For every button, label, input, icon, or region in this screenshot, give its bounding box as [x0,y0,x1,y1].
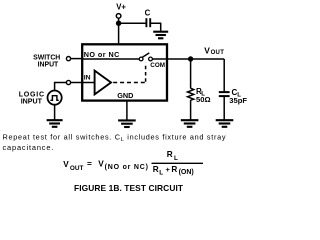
wire capacitor C to ground [150,23,161,31]
wire RL to ground [190,100,192,120]
terminal V+ [116,14,121,19]
svg-text:L: L [159,170,163,177]
svg-text:35pF: 35pF [229,96,247,105]
svg-text:50Ω: 50Ω [196,95,211,104]
svg-text:FIGURE 1B. TEST CIRCUIT: FIGURE 1B. TEST CIRCUIT [74,183,184,193]
wire junction to capacitor C [119,22,147,24]
wire NO/NC to switch [83,58,139,60]
terminal SWITCH INPUT [66,57,70,61]
wire V+ down to box top [118,18,120,45]
svg-text:COM: COM [150,62,165,69]
svg-text:(ON): (ON) [179,169,194,176]
capacitor C plates [146,18,150,27]
svg-text:L: L [174,155,178,162]
switch S1 [139,53,152,61]
resistor RL [188,88,194,100]
ground (decoupling cap C) [153,32,168,39]
wire VOUT to CL [223,59,225,91]
svg-text:INPUT: INPUT [38,62,59,69]
svg-text:(NO or NC): (NO or NC) [105,164,149,171]
wire COM to VOUT node and CL [152,58,224,60]
svg-text:capacitance.: capacitance. [3,143,55,152]
wire CL to ground [223,97,225,120]
wire VOUT node down to RL [190,59,192,88]
svg-text:V+: V+ [116,3,126,12]
wire terminal to box IN [71,82,83,84]
wire pulse generator to IN terminal [55,83,67,91]
svg-text:C: C [145,9,151,18]
svg-text:OUT: OUT [70,165,84,172]
ground (RL) [181,120,199,127]
junction dot V+ [116,21,121,26]
wire SWITCH INPUT to box [71,58,83,60]
capacitor CL plates [219,92,230,96]
svg-text:R: R [167,150,173,159]
wire pulse generator to ground [54,105,56,120]
ground (logic input) [47,120,63,127]
terminal LOGIC INPUT [66,80,70,84]
svg-text:NO or NC: NO or NC [84,50,120,59]
svg-text:V: V [204,45,210,55]
pulse generator G1 [48,91,62,105]
svg-text:OUT: OUT [211,50,225,56]
wire GND to ground [126,101,128,121]
junction dot VOUT [188,56,193,61]
svg-text:R: R [153,165,159,174]
svg-text:V: V [63,160,69,169]
svg-text:+: + [166,165,171,174]
ground (CL) [216,120,234,127]
equation VOUT = V(NO or NC) x RL/(RL+R(ON)) [63,150,203,176]
svg-text:IN: IN [84,74,91,81]
svg-text:R: R [171,165,177,174]
svg-text:=: = [87,159,92,169]
svg-text:GND: GND [117,91,133,100]
buffer A1 [83,71,111,95]
DUT box [82,44,167,100]
svg-text:V: V [98,160,104,169]
ground (DUT) [118,120,136,127]
svg-text:INPUT: INPUT [21,97,43,105]
svg-text:SWITCH: SWITCH [33,55,60,62]
dashed link buffer to switch [113,63,146,83]
